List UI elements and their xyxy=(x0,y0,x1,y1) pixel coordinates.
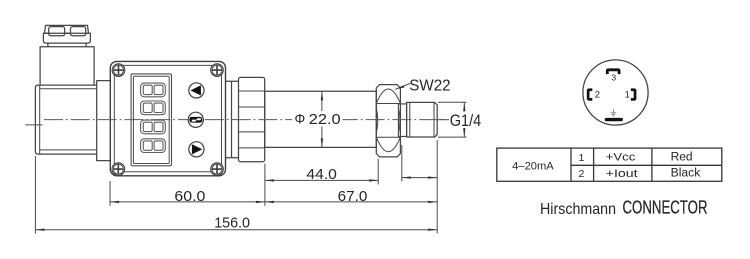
nut top chamfer arc xyxy=(376,89,400,104)
screw top-right xyxy=(211,64,224,77)
svg-text:156.0: 156.0 xyxy=(214,216,250,232)
display box outer shell xyxy=(110,61,225,175)
svg-text:G1/4: G1/4 xyxy=(450,111,482,130)
svg-text:60.0: 60.0 xyxy=(174,189,205,205)
button up (left arrow) xyxy=(189,83,204,98)
table column line 2 xyxy=(593,148,595,181)
table column line 1 xyxy=(570,148,572,181)
neck between port and box xyxy=(97,81,111,161)
display window inner xyxy=(133,76,169,163)
arrow thread-dim left xyxy=(402,176,411,178)
button down (right arrow) xyxy=(189,142,204,157)
svg-text:1: 1 xyxy=(625,90,630,101)
arrow 60.0 right / 67.0 left xyxy=(256,201,265,203)
table row line xyxy=(571,164,722,166)
flange band line 4 xyxy=(239,147,265,149)
dimension texts xyxy=(174,77,481,231)
gland hex facet right xyxy=(71,27,86,36)
svg-text:CONNECTOR: CONNECTOR xyxy=(623,197,708,217)
tick mark crossing port left edge xyxy=(25,124,42,126)
G1/4 extension bottom xyxy=(438,136,467,138)
svg-text:2: 2 xyxy=(579,168,585,180)
svg-text:+Iout: +Iout xyxy=(606,168,638,180)
extension line x=110 (box left) xyxy=(109,181,111,206)
extension line x=265 (flange right) xyxy=(264,164,266,206)
svg-text:22.0: 22.0 xyxy=(309,111,341,128)
dimension graphics xyxy=(35,83,466,233)
display window outer xyxy=(131,74,171,166)
G1/4 dim line upper xyxy=(463,102,465,111)
G1/4 extension top xyxy=(438,101,467,103)
phi22 dim line lower xyxy=(321,127,323,148)
extension line x=35.5 (port left) xyxy=(34,156,36,234)
svg-text:44.0: 44.0 xyxy=(306,167,337,183)
svg-text:Φ: Φ xyxy=(295,112,306,127)
dimension arrows xyxy=(35,85,465,231)
table texts xyxy=(512,151,700,180)
svg-text:2: 2 xyxy=(595,90,600,101)
arrow thread-dim right xyxy=(428,176,437,178)
svg-text:SW22: SW22 xyxy=(409,77,450,94)
phi22 dim line upper xyxy=(321,91,323,112)
digit group 2 xyxy=(141,101,166,115)
arrow 67.0 right xyxy=(428,201,437,203)
arrow 60.0 left xyxy=(110,201,119,203)
dim line 60.0 and 67.0 xyxy=(110,201,437,203)
SW22 leader xyxy=(395,83,410,89)
pin slot 3 (top staple) xyxy=(606,68,621,74)
digit group 4 xyxy=(141,139,166,153)
gland hex facet left xyxy=(49,27,65,36)
left port body xyxy=(35,85,96,154)
earth slot (bottom bar) xyxy=(605,118,623,121)
cooling flange xyxy=(239,77,265,161)
G1/4 leader xyxy=(438,119,449,121)
thread start line xyxy=(409,102,411,137)
arrow 156.0 left xyxy=(35,229,44,231)
threaded stub G1/4 xyxy=(407,102,438,137)
cable gland hex cap xyxy=(45,25,89,33)
dim line 44.0 xyxy=(265,179,378,181)
nut middle left arc xyxy=(376,108,378,133)
gland body xyxy=(40,47,94,85)
earth symbol xyxy=(611,109,617,116)
extension line x=378 (nut left) xyxy=(377,159,379,185)
hex nut SW22 outline xyxy=(376,85,400,157)
pin slot 2 (left bracket) xyxy=(587,88,593,100)
arrow phi22 top xyxy=(321,91,323,100)
G1/4 dim line lower xyxy=(463,128,465,137)
main cylinder xyxy=(265,91,377,147)
flange band line 2 xyxy=(239,106,265,108)
wiring table xyxy=(497,148,722,181)
extension line x=437 (stub right) xyxy=(436,140,438,234)
digit group 3 xyxy=(141,120,166,134)
hirschmann connector face circle xyxy=(583,60,648,125)
gland skirt xyxy=(43,33,90,43)
nut middle right arc xyxy=(399,108,401,133)
svg-text:1: 1 xyxy=(579,152,585,164)
screw top-left xyxy=(112,64,125,77)
port chamfer vertical line xyxy=(39,85,41,154)
nut band line top xyxy=(376,103,400,105)
arrow 44.0 left xyxy=(265,179,274,181)
svg-text:4–20mA: 4–20mA xyxy=(512,160,554,172)
dim line 156.0 xyxy=(35,229,437,231)
table column line 3 xyxy=(651,148,653,181)
svg-text:Red: Red xyxy=(671,151,693,163)
arrow G1/4 bottom xyxy=(463,128,465,137)
port chamfer top line xyxy=(40,88,97,90)
text phi22.0 xyxy=(292,111,343,128)
arrow phi22 bottom xyxy=(321,138,323,147)
arrow 44.0 right xyxy=(369,179,378,181)
screw bottom-right xyxy=(211,163,224,176)
digit group 1 xyxy=(141,83,166,97)
svg-text:3: 3 xyxy=(611,73,616,83)
svg-text:Black: Black xyxy=(671,168,701,180)
port chamfer bottom line xyxy=(40,149,97,151)
display box inner line xyxy=(114,65,221,171)
arrow 156.0 right xyxy=(428,229,437,231)
arrow SW22 leader xyxy=(395,85,404,89)
dim line thread (unlabeled) xyxy=(402,177,437,179)
nut bottom chamfer arc xyxy=(376,137,400,152)
svg-text:Hirschmann: Hirschmann xyxy=(540,201,616,218)
gland neck xyxy=(48,43,86,47)
arrow G1/4 top xyxy=(463,102,465,111)
flange band line 3 xyxy=(239,131,265,133)
screw bottom-left xyxy=(112,163,125,176)
svg-text:67.0: 67.0 xyxy=(338,189,368,205)
tab between box and flange xyxy=(226,81,239,157)
centerline xyxy=(44,119,446,121)
pin slot 1 (right bracket) xyxy=(631,88,637,100)
thread end line xyxy=(433,102,435,137)
table outer xyxy=(497,148,722,181)
extension line x=402 (thread start) xyxy=(401,145,403,182)
collar xyxy=(398,104,406,136)
svg-text:+Vcc: +Vcc xyxy=(606,152,636,164)
button set (S) xyxy=(188,112,203,127)
flange band line 1 xyxy=(239,90,265,92)
nut band line bottom xyxy=(376,136,400,138)
